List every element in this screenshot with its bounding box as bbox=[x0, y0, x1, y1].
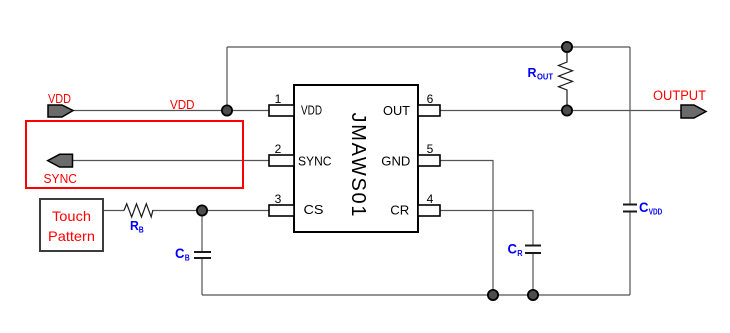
svg-text:JMAWS01: JMAWS01 bbox=[347, 113, 369, 217]
pin 4 stub bbox=[418, 205, 440, 216]
svg-text:5: 5 bbox=[427, 142, 434, 156]
port arrow OUTPUT bbox=[681, 105, 706, 118]
wire CS junction down to CB cap bbox=[201, 211, 203, 253]
resistor RB bbox=[124, 204, 153, 217]
wire Touch box to resistor RB bbox=[103, 210, 124, 212]
svg-text:B: B bbox=[139, 226, 144, 235]
svg-text:3: 3 bbox=[275, 192, 282, 206]
wire CB cap to bottom rail bbox=[201, 258, 203, 295]
svg-text:OUT: OUT bbox=[383, 103, 410, 118]
svg-text:C: C bbox=[639, 199, 649, 215]
svg-text:VDD: VDD bbox=[649, 208, 663, 217]
wire GND pin5 bbox=[440, 161, 493, 296]
wire vertical from VDD junction up bbox=[226, 47, 228, 111]
wire right rail below CVDD bbox=[629, 212, 631, 295]
wire CR cap to bottom rail bbox=[532, 253, 534, 295]
capacitor CVDD bbox=[623, 205, 637, 212]
svg-text:B: B bbox=[185, 254, 190, 263]
Touch Pattern box bbox=[40, 199, 103, 251]
junction CS node bbox=[197, 205, 207, 215]
svg-text:CS: CS bbox=[304, 202, 324, 217]
svg-text:GND: GND bbox=[381, 154, 410, 169]
wire bottom rail bbox=[202, 294, 630, 296]
junction OUT node bbox=[562, 105, 572, 115]
pin 5 stub bbox=[418, 155, 440, 166]
svg-text:VDD: VDD bbox=[48, 91, 71, 106]
svg-text:Touch: Touch bbox=[52, 208, 91, 224]
red callout box SYNC bbox=[26, 121, 243, 188]
pin 6 stub bbox=[418, 105, 440, 116]
svg-text:C: C bbox=[508, 241, 518, 257]
op IC U1 JMAWS01 body bbox=[294, 85, 418, 232]
wire SYNC arrow to pin2 bbox=[72, 160, 269, 162]
svg-text:R: R bbox=[517, 249, 523, 258]
junction top rail ROUT bbox=[562, 42, 572, 52]
wire OUT pin6 to OUTPUT arrow bbox=[440, 110, 681, 112]
svg-text:4: 4 bbox=[427, 192, 434, 206]
junction bottom rail CR bbox=[528, 290, 538, 300]
svg-text:Pattern: Pattern bbox=[48, 228, 95, 244]
wire VDD input to pin1 bbox=[73, 110, 269, 112]
port arrow SYNC bbox=[48, 154, 73, 167]
svg-text:SYNC: SYNC bbox=[44, 171, 78, 186]
resistor ROUT bbox=[559, 52, 573, 105]
wire resistor RB to pin3 bbox=[152, 210, 269, 212]
junction VDD node bbox=[222, 105, 232, 115]
svg-text:6: 6 bbox=[427, 92, 434, 106]
pin 3 stub bbox=[269, 205, 294, 216]
svg-text:C: C bbox=[175, 245, 185, 261]
svg-text:OUTPUT: OUTPUT bbox=[653, 88, 706, 103]
svg-text:CR: CR bbox=[390, 203, 409, 218]
pin 2 stub bbox=[269, 155, 294, 166]
svg-text:OUT: OUT bbox=[537, 73, 553, 82]
svg-text:1: 1 bbox=[275, 92, 282, 106]
junction bottom rail GND bbox=[488, 290, 498, 300]
svg-text:2: 2 bbox=[275, 142, 282, 156]
svg-text:VDD: VDD bbox=[170, 97, 195, 112]
svg-text:VDD: VDD bbox=[301, 103, 322, 118]
wire CR pin4 to CR cap bbox=[440, 211, 533, 246]
pin 1 stub bbox=[269, 105, 294, 116]
wire right rail down to CVDD bbox=[629, 47, 631, 204]
capacitor CB bbox=[194, 252, 211, 258]
svg-text:SYNC: SYNC bbox=[298, 154, 332, 169]
svg-text:R: R bbox=[528, 65, 538, 80]
wire top rail bbox=[227, 46, 630, 48]
capacitor CR bbox=[525, 246, 541, 254]
port arrow VDD bbox=[48, 105, 73, 117]
